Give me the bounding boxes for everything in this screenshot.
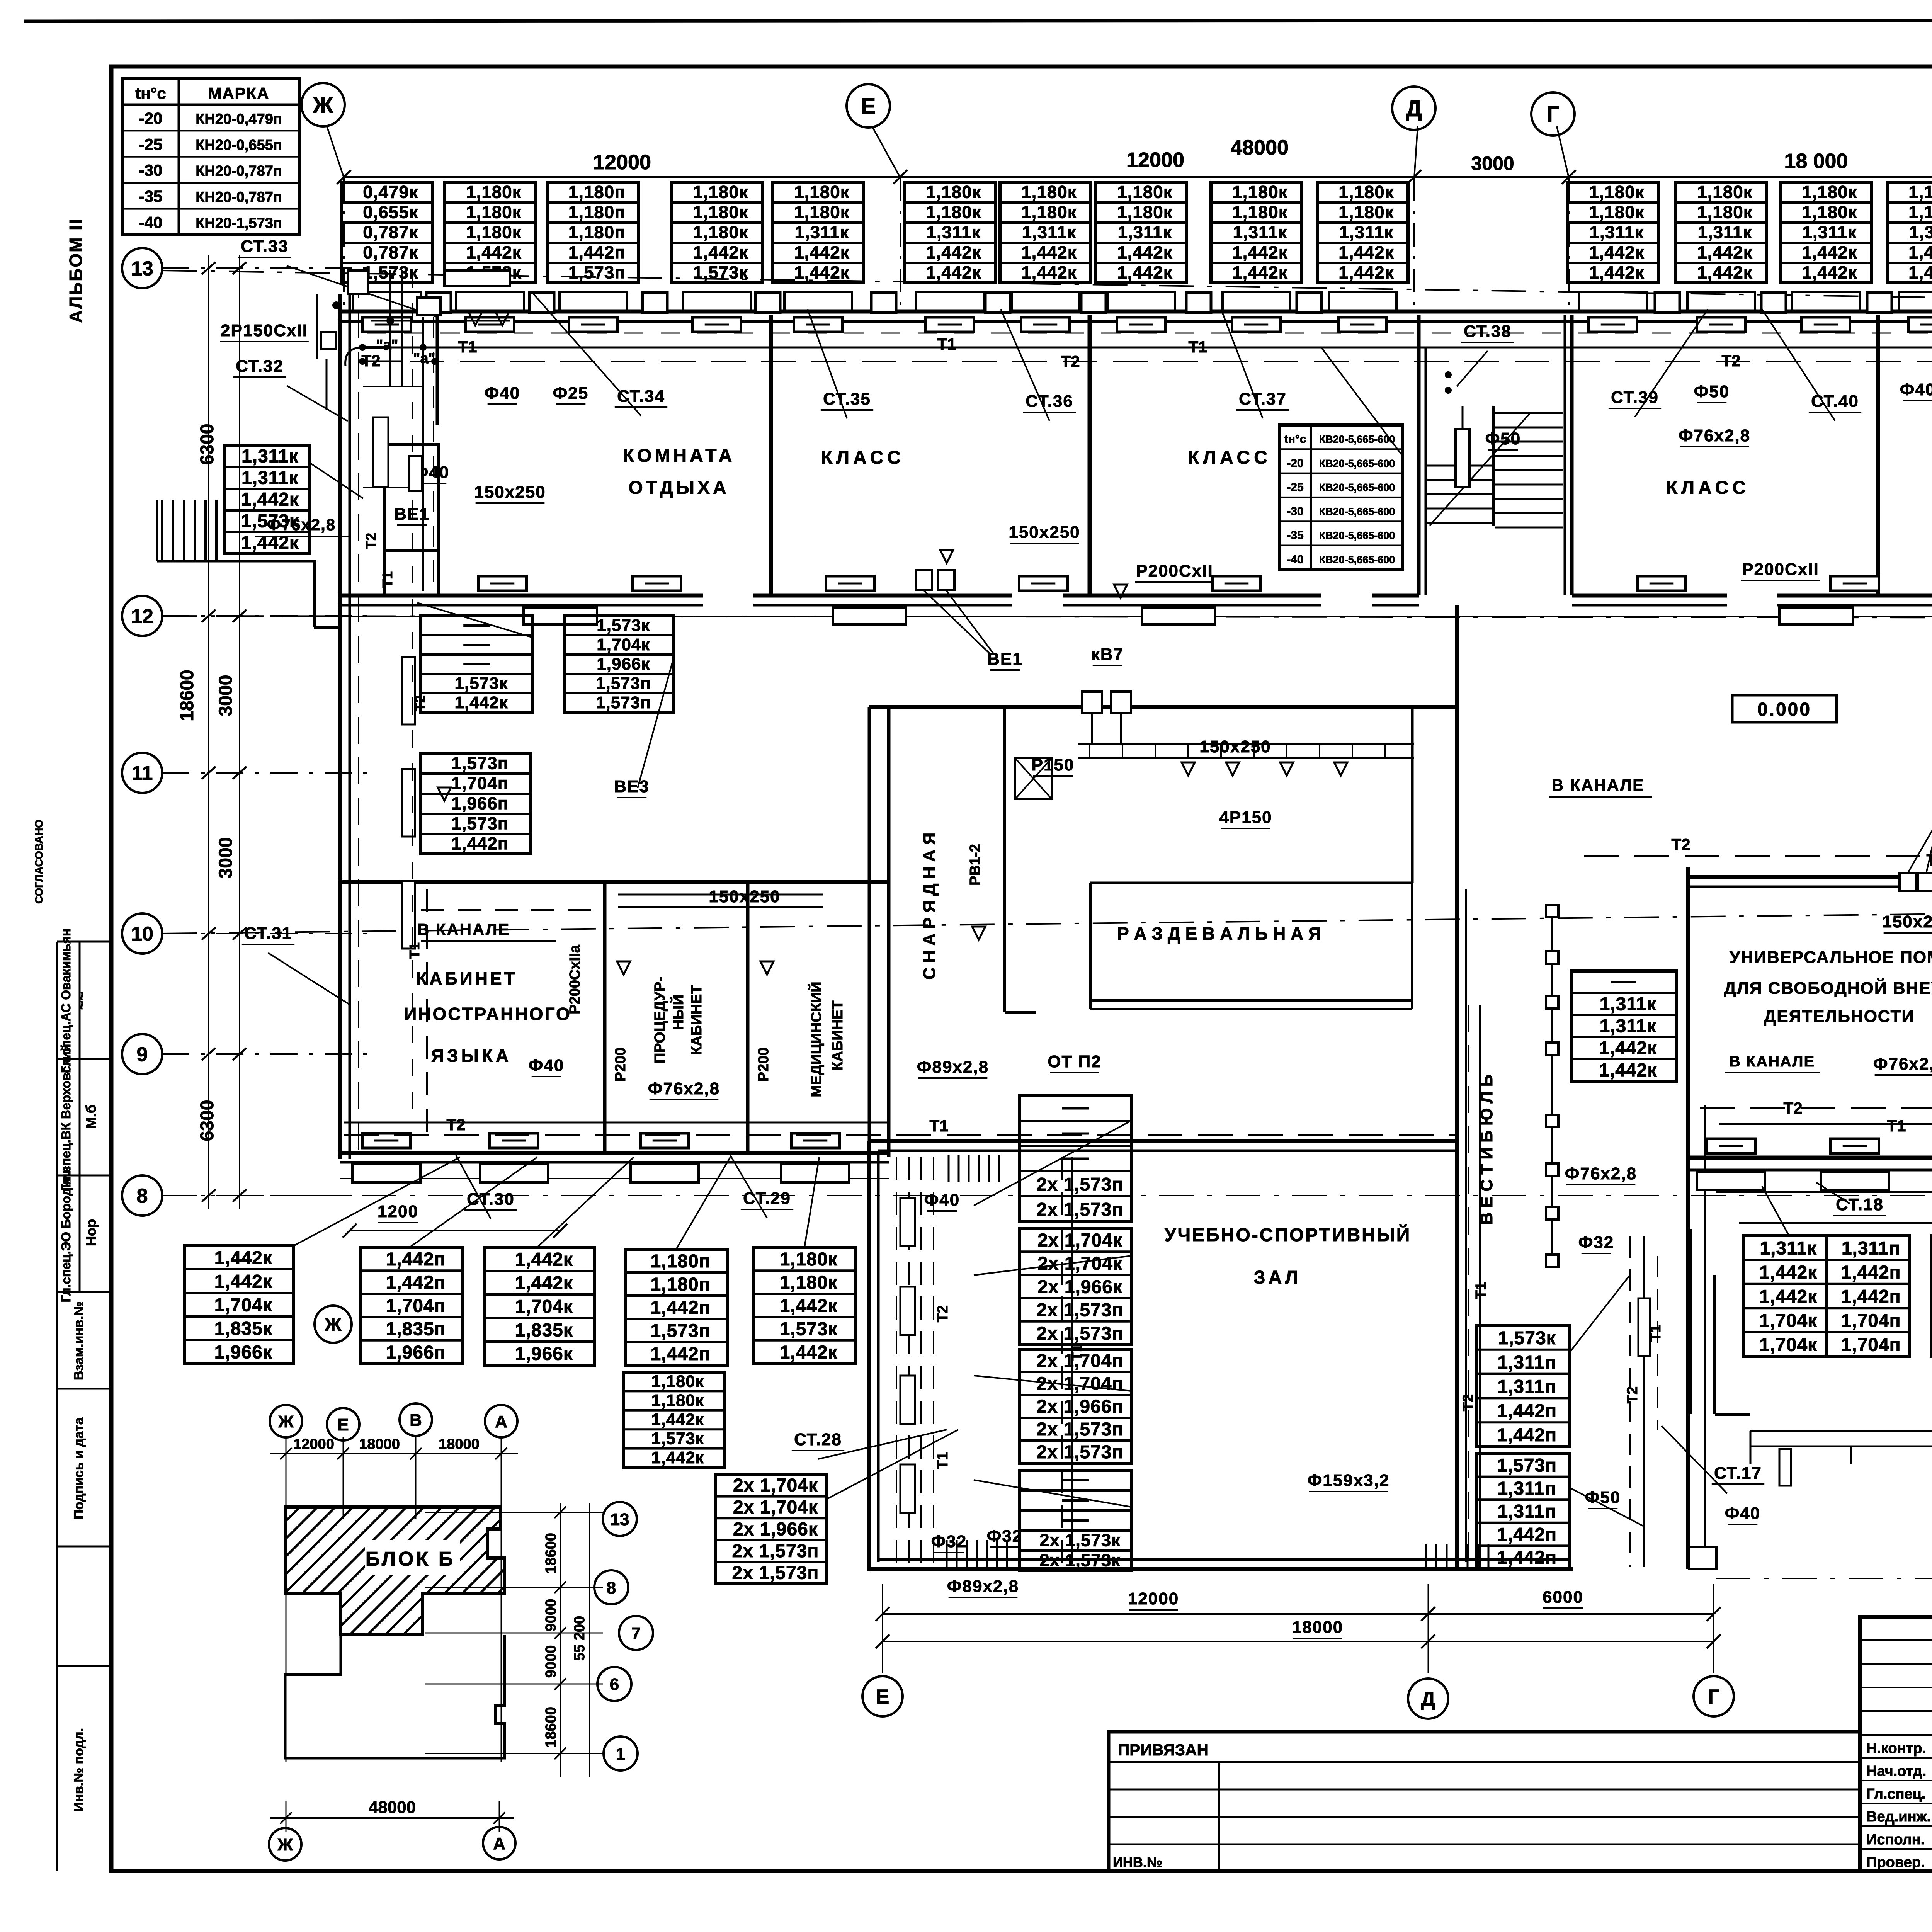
table vest right 1 [1477,1325,1570,1447]
svg-text:М.б: М.б [83,1105,99,1129]
fan symbol P150 [1015,758,1052,799]
svg-text:СТ.32: СТ.32 [236,357,284,376]
svg-text:КАБИНЕТ: КАБИНЕТ [830,1000,846,1070]
small triangles vents [438,312,1932,975]
svg-text:1,180к: 1,180к [1802,202,1857,222]
table L3 [485,1247,594,1365]
sidebar column lines [57,942,111,1871]
table ve area 3 [421,753,531,854]
kp axis 8 [594,1570,628,1604]
svg-text:1,704к: 1,704к [515,1297,573,1317]
svg-text:СТ.33: СТ.33 [241,237,289,256]
svg-text:1,180к: 1,180к [693,182,748,202]
top table 3 [548,182,639,283]
svg-text:КОМНАТА: КОМНАТА [623,446,735,466]
svg-text:РВ1-2: РВ1-2 [967,844,983,886]
svg-text:1,180к: 1,180к [794,202,849,222]
svg-text:1,835п: 1,835п [386,1319,446,1340]
title block [1860,1617,1932,1871]
svg-text:1,311к: 1,311к [1600,1016,1657,1036]
svg-text:А: А [495,1412,507,1431]
svg-text:1,442п: 1,442п [1497,1425,1557,1446]
svg-text:Гл.спец.ЭО Бородкин: Гл.спец.ЭО Бородкин [59,1166,73,1302]
svg-text:Д: Д [1406,96,1422,121]
svg-text:Ж: Ж [313,93,333,118]
svg-text:1,442к: 1,442к [1802,243,1857,262]
svg-text:1,966к: 1,966к [515,1344,573,1364]
riser cluster gym top left [949,1155,999,1182]
svg-text:1,442к: 1,442к [926,243,981,262]
svg-text:-25: -25 [139,135,163,153]
pipe T1 band1 [390,347,1932,349]
svg-text:1,311к: 1,311к [1589,223,1644,242]
svg-text:НЫЙ: НЫЙ [669,995,687,1030]
axis E1 [847,84,890,128]
table 2x B [1020,1228,1131,1345]
svg-text:1,442к: 1,442к [1117,263,1172,282]
svg-text:Т2: Т2 [1460,1394,1476,1411]
svg-text:КЛАСС: КЛАСС [1188,447,1271,468]
sheet top border [24,20,1932,21]
svg-text:1,704п: 1,704п [451,774,509,793]
svg-text:Р200СхIIа: Р200СхIIа [567,944,583,1014]
svg-text:2х 1,573п: 2х 1,573п [732,1563,819,1583]
svg-text:Т1: Т1 [458,338,477,356]
svg-text:КН20-0,655п: КН20-0,655п [196,137,282,153]
svg-text:-35: -35 [139,187,163,206]
svg-text:Т1: Т1 [379,571,395,588]
svg-text:1,442к: 1,442к [1589,243,1644,262]
svg-text:1,442к: 1,442к [1117,243,1172,262]
svg-text:КН20-0,787п: КН20-0,787п [196,189,282,206]
svg-text:12000: 12000 [1126,148,1184,172]
svg-text:ИНОСТРАННОГО: ИНОСТРАННОГО [404,1004,571,1024]
temperature mark table [123,79,299,235]
svg-text:2х 1,573п: 2х 1,573п [1037,1323,1124,1344]
left section bottom wall [338,1153,889,1179]
svg-text:Ф32: Ф32 [931,1532,967,1551]
top table 10 [1317,182,1408,283]
svg-text:2х 1,704к: 2х 1,704к [733,1497,818,1518]
svg-text:1,180к: 1,180к [466,223,521,242]
table vestibule top [1571,971,1676,1081]
svg-text:1,180к: 1,180к [1117,182,1172,202]
table st33 left [224,446,309,554]
svg-text:Ф32: Ф32 [1578,1233,1614,1252]
svg-text:1,704к: 1,704к [1759,1311,1817,1331]
ve1 boxes [916,570,993,653]
svg-text:ЗАЛ: ЗАЛ [1254,1267,1301,1288]
svg-text:Взам.инв.№: Взам.инв.№ [71,1301,86,1380]
pipe labels band1 [361,335,1932,371]
svg-text:СТ.28: СТ.28 [794,1430,842,1449]
svg-text:1,442к: 1,442к [1021,263,1077,282]
svg-text:СТ.36: СТ.36 [1026,392,1073,411]
svg-text:1,704п: 1,704п [386,1296,446,1316]
svg-text:Ф76х2,8: Ф76х2,8 [1873,1054,1932,1073]
svg-text:1,180к: 1,180к [1338,202,1394,222]
svg-text:Д: Д [1421,1688,1435,1711]
svg-text:1,835к: 1,835к [214,1319,272,1339]
svg-text:1,311к: 1,311к [1802,223,1857,242]
svg-text:КЛАСС: КЛАСС [1666,478,1750,498]
top dimension line [337,170,1932,184]
svg-text:1,573к: 1,573к [651,1430,704,1448]
svg-text:1,442к: 1,442к [466,243,521,262]
svg-text:КВ20-5,665-600: КВ20-5,665-600 [1319,482,1395,493]
axis line 8 [162,1195,1932,1196]
svg-text:1,442к: 1,442к [1021,243,1077,262]
svg-text:2х 1,573п: 2х 1,573п [1037,1175,1124,1195]
window sills top [353,292,1932,311]
svg-text:1,180к: 1,180к [1232,182,1287,202]
dim 18000 right [1739,1200,1932,1223]
svg-text:Ф89х2,8: Ф89х2,8 [917,1058,989,1077]
svg-text:1,180п: 1,180п [651,1274,711,1295]
svg-text:СТ.37: СТ.37 [1239,389,1287,408]
svg-text:УЧЕБНО-СПОРТИВНЫЙ: УЧЕБНО-СПОРТИВНЫЙ [1165,1224,1412,1245]
svg-text:ВЕ1: ВЕ1 [394,505,430,524]
window piers top wall [426,293,1932,313]
svg-text:Ж: Ж [278,1412,294,1431]
svg-text:1,311к: 1,311к [1760,1238,1817,1259]
svg-text:КВ20-5,665-600: КВ20-5,665-600 [1319,530,1395,541]
svg-text:Т1: Т1 [1648,1325,1664,1342]
svg-text:1,442к: 1,442к [651,1410,704,1429]
svg-text:ИНВ.№: ИНВ.№ [1113,1854,1162,1870]
svg-text:1,573п: 1,573п [596,674,651,693]
svg-text:1,704к: 1,704к [214,1295,272,1316]
svg-text:1,180к: 1,180к [1589,182,1644,202]
svg-text:1,311п: 1,311п [1497,1352,1556,1373]
svg-text:1,573п: 1,573п [1497,1455,1557,1476]
svg-text:1,442п: 1,442п [1841,1262,1901,1283]
svg-text:1,442к: 1,442к [780,1296,838,1316]
svg-text:1,180к: 1,180к [693,223,748,242]
band1 interior walls [437,315,1932,594]
svg-text:Нор: Нор [83,1219,99,1246]
svg-text:1,180к: 1,180к [466,182,521,202]
svg-text:В КАНАЛЕ: В КАНАЛЕ [1552,776,1645,794]
svg-text:1,442п: 1,442п [1497,1548,1557,1568]
svg-text:1,573п: 1,573п [451,753,509,773]
svg-text:1,180к: 1,180к [1232,202,1287,222]
svg-text:1,180к: 1,180к [794,182,849,202]
svg-text:"а": "а" [413,350,435,367]
axis line 10 [162,906,1932,934]
top dimension labels [593,136,1932,174]
svg-text:1,180к: 1,180к [466,202,521,222]
window sills corridor [524,607,1932,624]
axis G [1531,92,1575,136]
svg-text:18000: 18000 [359,1436,400,1452]
top table 8 [1096,182,1187,283]
radiators right section bottom [1707,1139,1932,1153]
svg-text:1,180к: 1,180к [1117,202,1172,222]
svg-text:СОГЛАСОВАНО: СОГЛАСОВАНО [33,820,45,904]
svg-text:1,442к: 1,442к [1338,263,1394,282]
svg-text:2Р150СхII: 2Р150СхII [221,321,308,340]
svg-text:1,180п: 1,180п [568,182,626,202]
svg-text:1,180п: 1,180п [568,223,626,242]
svg-text:150х250: 150х250 [474,483,546,502]
svg-text:8: 8 [607,1578,616,1597]
svg-text:12: 12 [131,605,153,628]
svg-text:1,442к: 1,442к [1232,263,1287,282]
svg-text:2х 1,573к: 2х 1,573к [1039,1551,1121,1570]
kp axis V [400,1403,432,1436]
svg-text:1,442п: 1,442п [651,1298,711,1318]
svg-text:Т1: Т1 [935,1452,951,1469]
svg-text:Т2: Т2 [446,1116,465,1134]
key plan bottom dim [270,1798,514,1832]
svg-text:АЛЬБОМ II: АЛЬБОМ II [66,218,86,323]
svg-text:Нач.отд.: Нач.отд. [1866,1763,1926,1779]
svg-text:18600: 18600 [177,670,197,721]
svg-text:ЯЗЫКА: ЯЗЫКА [431,1046,512,1066]
svg-text:1,180к: 1,180к [926,202,981,222]
zero level mark [1732,695,1837,722]
svg-text:1,180к: 1,180к [651,1391,704,1410]
svg-text:Ф76х2,8: Ф76х2,8 [648,1079,720,1098]
riser cluster vestibule bottom [1426,1544,1488,1568]
svg-text:-30: -30 [139,161,163,179]
svg-text:48000: 48000 [369,1798,416,1817]
duct kabinet [618,895,823,907]
svg-text:0,787к: 0,787к [363,243,418,262]
svg-text:1,311к: 1,311к [241,468,299,488]
svg-text:1,442к: 1,442к [780,1342,838,1363]
KV20 table [1280,425,1403,570]
gym hall walls [869,1141,1573,1571]
kp axis 13 [603,1502,637,1536]
top table 9 [1211,182,1302,283]
svg-text:6300: 6300 [197,424,218,465]
svg-text:Т1: Т1 [1887,1117,1906,1135]
svg-text:-40: -40 [1287,553,1303,566]
svg-text:ДЛЯ СВОБОДНОЙ ВНЕУЧЕБНОЙ: ДЛЯ СВОБОДНОЙ ВНЕУЧЕБНОЙ [1724,978,1932,998]
svg-text:-35: -35 [1287,529,1303,542]
svg-text:1,311к: 1,311к [926,223,981,242]
svg-text:1,704п: 1,704п [1841,1311,1901,1331]
svg-text:В КАНАЛЕ: В КАНАЛЕ [1729,1053,1815,1070]
kp axis A [485,1405,517,1437]
svg-text:КН20-0,787п: КН20-0,787п [196,163,282,179]
svg-text:Р200СхII: Р200СхII [1136,561,1213,580]
svg-text:-20: -20 [1287,457,1303,469]
svg-text:1,442п: 1,442п [451,834,509,854]
svg-text:ДЕЯТЕЛЬНОСТИ: ДЕЯТЕЛЬНОСТИ [1764,1007,1915,1026]
svg-text:1200: 1200 [378,1202,418,1221]
svg-text:1,180к: 1,180к [1697,182,1752,202]
svg-text:1,311к: 1,311к [1697,223,1752,242]
svg-text:150х250: 150х250 [1199,737,1271,756]
svg-text:Р200: Р200 [612,1048,629,1082]
svg-text:Н.контр.: Н.контр. [1866,1740,1926,1757]
svg-text:1,180к: 1,180к [1697,202,1752,222]
kv7 boxes [1082,692,1131,744]
svg-text:Е: Е [861,94,876,119]
svg-text:1,442к: 1,442к [515,1250,573,1270]
svg-text:Г: Г [1708,1686,1719,1708]
svg-text:1,311п: 1,311п [1497,1377,1556,1397]
kp axis 6 [597,1667,631,1701]
entrance canopy [1750,1431,1932,1561]
svg-text:1,180к: 1,180к [780,1272,838,1293]
svg-text:Подпись и дата: Подпись и дата [71,1417,86,1519]
svg-text:2х 1,573п: 2х 1,573п [1037,1419,1124,1440]
svg-text:18600: 18600 [543,1707,559,1748]
svg-text:Ф50: Ф50 [1694,382,1730,401]
svg-text:6: 6 [610,1675,619,1694]
table L5 [753,1247,856,1364]
svg-text:12000: 12000 [293,1436,334,1452]
table 2x A [1020,1096,1131,1221]
svg-text:1,180к: 1,180к [1589,202,1644,222]
svg-text:Р200СхII: Р200СхII [1742,560,1819,579]
svg-text:Т2: Т2 [412,695,428,711]
svg-text:9000: 9000 [543,1599,559,1632]
kp axis E [327,1408,359,1440]
svg-text:1,180к: 1,180к [1802,182,1857,202]
svg-text:КН20-0,479п: КН20-0,479п [196,111,282,127]
svg-text:1,573п: 1,573п [651,1321,711,1341]
svg-text:1,180к: 1,180к [1021,182,1077,202]
svg-text:1,704к: 1,704к [597,635,650,654]
table vest right 2 [1477,1454,1570,1569]
svg-text:1,835к: 1,835к [515,1320,573,1341]
svg-text:Т2: Т2 [1721,352,1740,370]
svg-text:2х 1,573п: 2х 1,573п [1037,1442,1124,1463]
stair treads [1427,406,1563,527]
svg-text:-30: -30 [1287,505,1303,518]
ve5 duct boxes [1900,831,1932,891]
axis line 7 right [1716,1578,1932,1579]
svg-text:1,442к: 1,442к [1908,263,1932,282]
svg-text:2х 1,966к: 2х 1,966к [733,1519,818,1539]
svg-text:1,311к: 1,311к [1022,223,1076,242]
svg-text:В КАНАЛЕ: В КАНАЛЕ [417,920,510,939]
svg-text:2х 1,966п: 2х 1,966п [1037,1396,1124,1417]
svg-text:МЕДИЦИНСКИЙ: МЕДИЦИНСКИЙ [807,981,825,1097]
vestibule columns [1546,905,1558,1267]
svg-text:1,573п: 1,573п [596,693,651,712]
svg-text:Ж: Ж [324,1315,342,1335]
svg-text:0.000: 0.000 [1757,699,1811,720]
svg-text:СТ.31: СТ.31 [244,924,292,943]
top table 2 [445,182,536,283]
axis Zh small [315,1306,352,1343]
svg-text:-25: -25 [1287,481,1303,494]
top table 12 [1676,182,1767,283]
table L2 [361,1247,463,1364]
svg-text:1,442к: 1,442к [1802,263,1857,282]
svg-text:Ф40: Ф40 [924,1190,960,1209]
svg-text:Ф25: Ф25 [553,384,589,403]
svg-text:Т2: Т2 [1061,352,1080,371]
top table 6 [905,182,995,283]
svg-text:1,311п: 1,311п [1497,1478,1556,1499]
svg-text:1,180к: 1,180к [1908,202,1932,222]
svg-text:1,442к: 1,442к [1589,263,1644,282]
svg-text:Т1: Т1 [1473,1282,1489,1299]
svg-text:Исполн.: Исполн. [1866,1832,1925,1848]
svg-text:1,442п: 1,442п [1497,1524,1557,1545]
top exterior wall [338,311,1932,321]
svg-text:1,180к: 1,180к [780,1249,838,1270]
svg-text:1,442к: 1,442к [794,263,849,282]
tambour walls [1689,1229,1750,1569]
svg-text:1,311к: 1,311к [241,446,299,467]
svg-text:1,442к: 1,442к [1599,1038,1657,1058]
axis G bottom [1694,1676,1734,1716]
svg-text:3000: 3000 [216,837,236,879]
kp axis 7 [619,1616,653,1650]
svg-text:Ф32: Ф32 [987,1527,1023,1546]
svg-text:8: 8 [137,1185,148,1207]
svg-text:С Н А Р Я Д Н А Я: С Н А Р Я Д Н А Я [920,833,939,980]
top table 4 [672,182,762,283]
svg-text:1,180к: 1,180к [926,182,981,202]
radiators corridor row [478,576,1932,591]
svg-text:9000: 9000 [543,1645,559,1678]
svg-text:ВЕ3: ВЕ3 [614,777,650,796]
svg-text:12000: 12000 [593,151,651,174]
svg-text:18 000: 18 000 [1784,150,1848,173]
svg-text:1,966к: 1,966к [214,1342,272,1363]
pipe diameter labels [220,321,1932,1638]
svg-text:Т1: Т1 [929,1117,948,1135]
axis line 13 [162,270,1932,308]
svg-text:1,442к: 1,442к [1599,1060,1657,1080]
table M3 [623,1372,724,1468]
svg-text:Т1: Т1 [406,942,422,959]
table BR1 [1743,1236,1827,1356]
svg-text:1,704п: 1,704п [1841,1335,1901,1355]
svg-text:Ф89х2,8: Ф89х2,8 [947,1577,1019,1596]
svg-text:1,442к: 1,442к [1908,243,1932,262]
axis line 12 [162,616,1932,618]
svg-text:150х250: 150х250 [1882,912,1932,931]
svg-text:ПРОЦЕДУР-: ПРОЦЕДУР- [652,977,668,1063]
svg-text:Р А З Д Е В А Л Ь Н А Я: Р А З Д Е В А Л Ь Н А Я [1117,923,1321,944]
svg-text:1,180п: 1,180п [651,1251,711,1272]
axis E bottom [862,1676,903,1716]
svg-text:2х 1,704к: 2х 1,704к [1037,1253,1122,1274]
svg-text:СТ.30: СТ.30 [467,1190,515,1209]
universal room top wall [1689,877,1932,887]
svg-text:1,442п: 1,442п [386,1272,446,1293]
svg-text:Гл.спец.: Гл.спец. [1866,1786,1925,1802]
svg-text:Ф76х2,8: Ф76х2,8 [267,515,336,534]
svg-text:Ф40: Ф40 [1900,380,1932,399]
svg-text:А: А [493,1834,505,1853]
svg-text:Т2: Т2 [1783,1099,1802,1117]
left porch steps [157,500,379,627]
svg-text:кВ7: кВ7 [1091,645,1124,664]
leader lines [268,266,1932,1493]
key plan top dims [270,1436,518,1762]
top table 13 [1781,182,1871,283]
axis 11 L [122,753,162,793]
svg-text:1,573к: 1,573к [455,674,508,693]
svg-text:1,442к: 1,442к [455,693,508,712]
svg-text:1,442к: 1,442к [651,1449,704,1467]
svg-text:1,442к: 1,442к [693,243,748,262]
svg-text:0,655к: 0,655к [363,202,418,222]
svg-text:ПРИВЯЗАН: ПРИВЯЗАН [1118,1741,1209,1759]
band1 bottom wall [338,595,1932,617]
